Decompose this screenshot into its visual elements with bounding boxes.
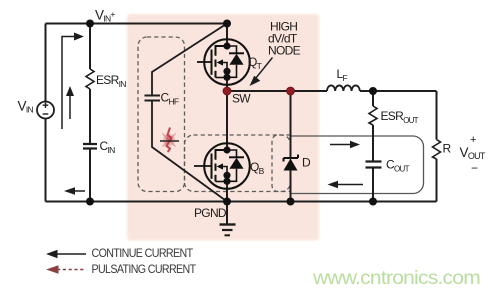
node SW red marker at QT source <box>223 87 231 95</box>
svg-text:R: R <box>443 142 452 156</box>
resistor R (load) <box>433 140 441 160</box>
node dot PGND junction <box>223 198 231 206</box>
svg-text:+: + <box>470 134 476 146</box>
wire CHF bent branch <box>152 24 227 202</box>
current arrow (input loop, L-shape with right head) <box>62 33 84 130</box>
legend dashed arrow (pulsating current) <box>46 265 86 273</box>
node dot bottom of input branch <box>86 198 94 206</box>
current arrow (left, in output loop) <box>328 181 364 189</box>
dashed box around QB <box>185 135 291 192</box>
dashed divider box around D <box>272 135 291 192</box>
current arrow (left, above bottom rail) <box>64 187 85 195</box>
wire diode branch <box>290 91 292 202</box>
svg-text:−: − <box>471 161 478 175</box>
ground PGND <box>220 202 236 236</box>
svg-text:CONTINUE CURRENT: CONTINUE CURRENT <box>92 246 194 260</box>
svg-text:D: D <box>302 156 311 170</box>
svg-text:SW: SW <box>232 92 251 106</box>
svg-text:PULSATING CURRENT: PULSATING CURRENT <box>92 262 197 276</box>
pulsating current spark marker <box>160 128 179 153</box>
node SW red marker at diode junction <box>287 87 295 95</box>
annotation arrow to SW node <box>250 58 273 87</box>
inductor LF <box>327 85 360 91</box>
svg-text:PGND: PGND <box>194 206 227 220</box>
transistor QT (high-side MOSFET) <box>197 39 250 85</box>
resistor ESRin <box>86 69 94 89</box>
node dot SW/ESRout junction <box>369 87 377 95</box>
wire left rail <box>45 24 47 202</box>
wire SW rail <box>227 90 437 92</box>
legend solid arrow (continue current) <box>46 250 86 258</box>
node dot top of switch column <box>223 20 231 28</box>
node dot top of input branch <box>86 20 94 28</box>
transistor QB (low-side MOSFET) <box>194 143 250 189</box>
voltage source VIN <box>37 102 54 119</box>
capacitor Cin <box>83 144 97 149</box>
node dot bottom of output cap branch <box>369 198 377 206</box>
wire right rail <box>436 91 438 202</box>
diode D (schottky) <box>284 155 299 171</box>
svg-text:NODE: NODE <box>268 44 301 58</box>
wire input branch (ESRin/Cin) <box>89 24 91 202</box>
capacitor CHF <box>145 96 161 101</box>
svg-text:www.cntronics.com: www.cntronics.com <box>312 267 480 289</box>
wire top rail <box>46 23 228 25</box>
current arrow (right, in output loop) <box>330 141 360 149</box>
wire bottom rail <box>46 201 437 203</box>
current arrow (up, beside Cin) <box>66 86 74 119</box>
wire main switch column <box>226 24 228 202</box>
node dot bottom of diode branch <box>287 198 295 206</box>
resistor ESRout <box>369 106 377 125</box>
output current loop (solid rounded rect) <box>291 136 424 194</box>
dashed box around CHF <box>138 37 185 192</box>
wire output cap branch <box>372 91 374 202</box>
capacitor Cout <box>366 162 382 168</box>
